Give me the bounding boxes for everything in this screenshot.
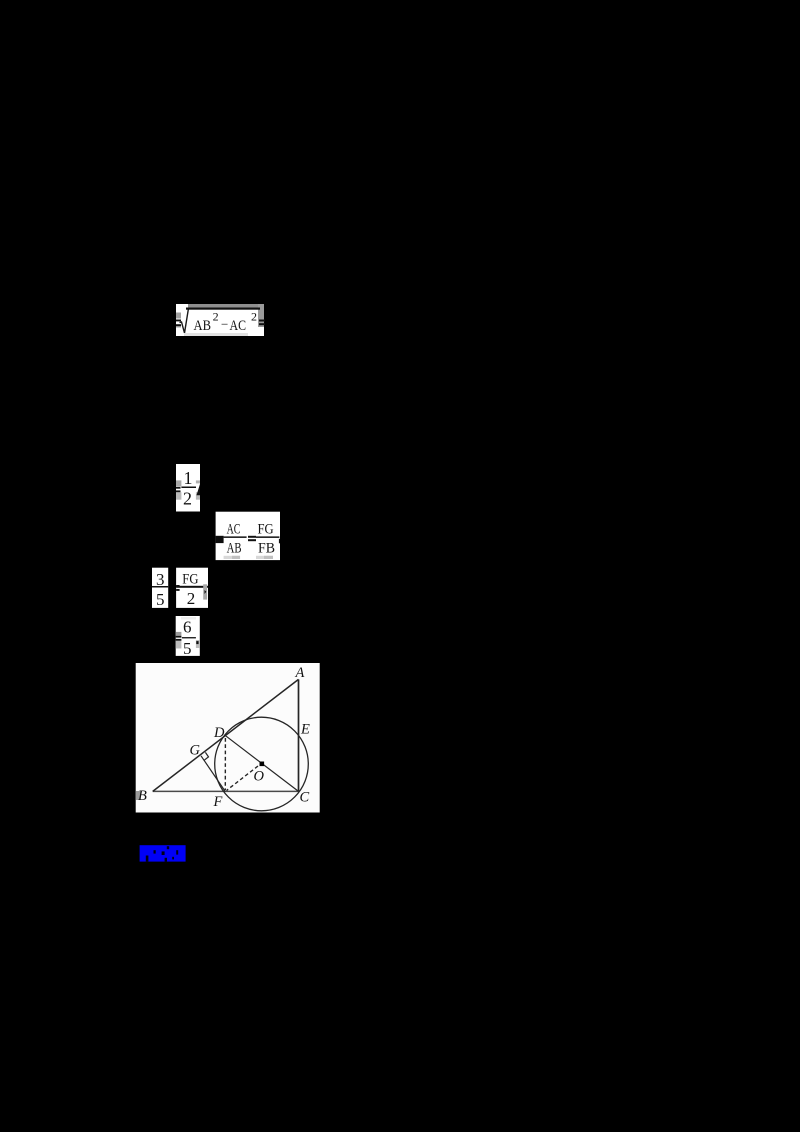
leading equals clipped <box>176 636 182 638</box>
trailing equals sign over gray edge <box>259 320 265 322</box>
equation image 2: = 1/2 AB <box>170 460 210 516</box>
svg-text:AC: AC <box>227 522 241 538</box>
svg-text:FB: FB <box>258 541 275 557</box>
equation image 1: = sqrt(AB^2 - AC^2) = <box>170 300 272 340</box>
white patch background <box>176 304 264 336</box>
equation image 4: 3/5 <box>148 564 172 612</box>
svg-text:AC: AC <box>230 318 247 334</box>
black comma/arrow <box>205 590 207 594</box>
svg-text:C: C <box>300 790 310 806</box>
svg-text:AB: AB <box>227 541 242 557</box>
svg-text:5: 5 <box>183 639 192 658</box>
svg-text:5: 5 <box>156 590 165 609</box>
leading clipped equals: thick dark mark <box>216 536 224 543</box>
right-angle mark at G <box>204 752 208 760</box>
svg-text:FG: FG <box>182 572 198 588</box>
gray edge blocks <box>176 480 181 486</box>
svg-text:2: 2 <box>183 489 192 509</box>
svg-text:2: 2 <box>213 310 219 324</box>
svg-text:1: 1 <box>184 468 193 488</box>
fraction bar <box>181 487 196 489</box>
equation image 5: = FG/2 , <box>170 564 214 612</box>
radical overline <box>186 308 260 310</box>
trailing comma clipped at right edge <box>279 539 280 544</box>
equation image 3: AC/AB = FG/FB <box>210 506 286 566</box>
dashed DF <box>224 738 226 790</box>
geometry figure image <box>135 662 321 813</box>
equation image 6: = 6/5 . <box>170 612 210 660</box>
center dot O <box>260 762 265 767</box>
leading equals clipped <box>176 585 180 587</box>
gray column right <box>203 584 207 599</box>
svg-text:6: 6 <box>183 618 192 637</box>
svg-text:O: O <box>254 769 265 785</box>
side AC <box>298 679 300 791</box>
svg-text:AB: AB <box>194 318 212 334</box>
equals between fractions <box>248 536 256 538</box>
segment GF <box>201 756 225 792</box>
svg-text:FG: FG <box>258 522 274 538</box>
dashed OF <box>227 766 259 791</box>
white figure background <box>136 663 320 813</box>
dark wedge of following italic letter <box>197 484 201 495</box>
gray smudges at bottom <box>224 556 241 559</box>
gray blob at left edge near B <box>136 791 141 800</box>
radical sign <box>180 308 189 333</box>
svg-text:A: A <box>295 665 305 681</box>
leading equals (clipped) <box>176 487 181 489</box>
gray top band of equation image <box>188 304 264 310</box>
circle O <box>215 717 309 811</box>
svg-text:D: D <box>213 725 225 741</box>
diameter DC <box>226 736 299 792</box>
svg-text:−: − <box>221 317 228 332</box>
leading equals sign (clipped at patch edge) <box>176 320 181 322</box>
svg-text:F: F <box>213 794 223 810</box>
blue highlighted header text blob <box>136 842 192 866</box>
fraction bar <box>176 586 208 588</box>
side BA <box>153 679 299 791</box>
svg-text:B: B <box>138 788 147 804</box>
svg-text:G: G <box>190 743 201 759</box>
svg-text:2: 2 <box>187 589 196 608</box>
svg-text:E: E <box>300 722 310 738</box>
gray edge blocks <box>176 632 182 636</box>
labels <box>138 665 310 810</box>
side BC <box>153 790 299 792</box>
trailing period <box>196 641 198 644</box>
svg-text:2: 2 <box>251 310 257 324</box>
